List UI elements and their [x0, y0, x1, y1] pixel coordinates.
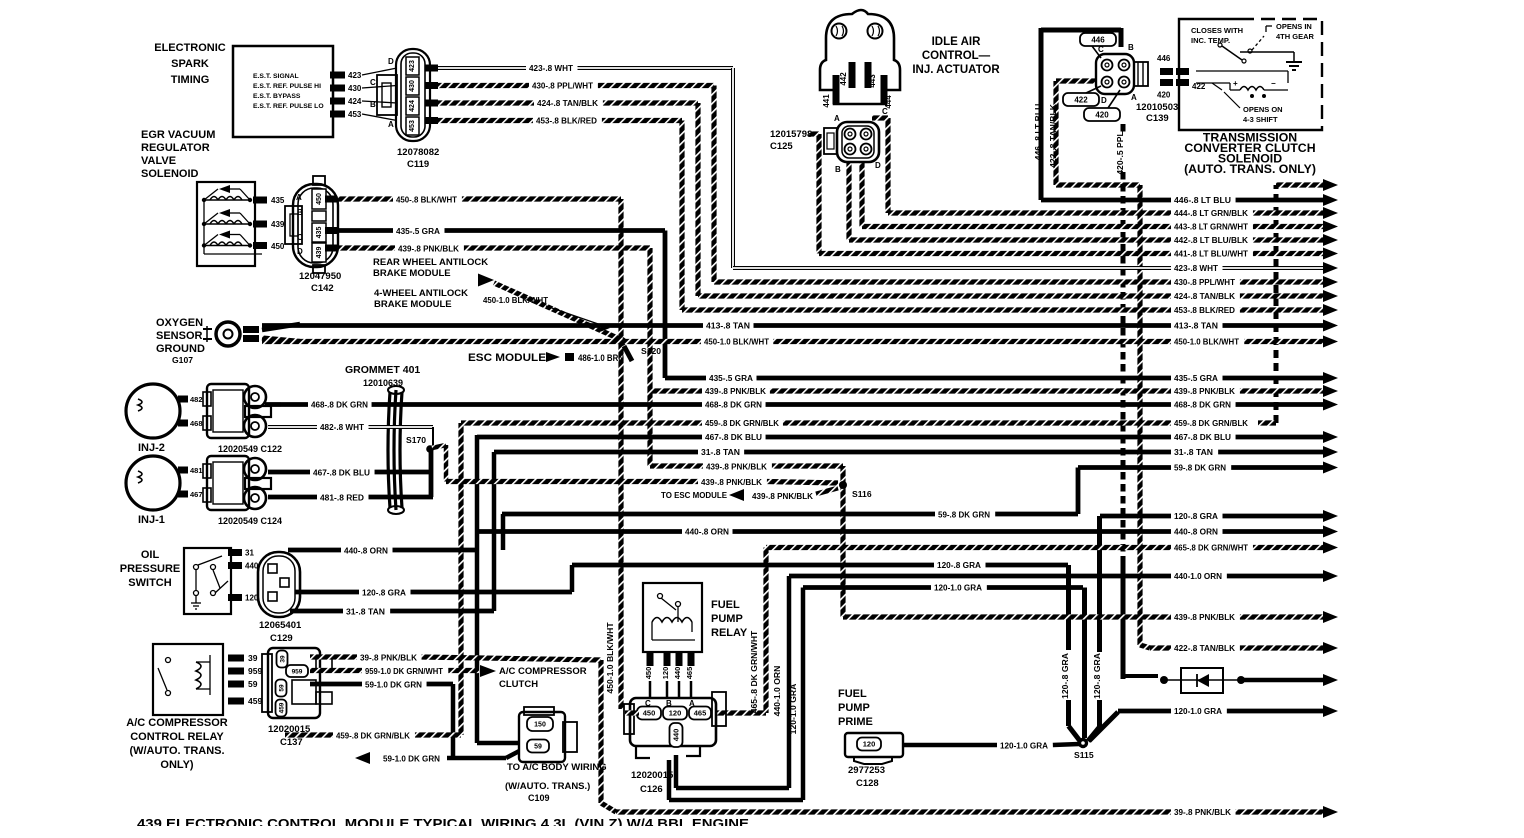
svg-text:435: 435 [316, 227, 323, 239]
svg-text:ESC MODULE: ESC MODULE [468, 352, 546, 364]
svg-text:481-.8 RED: 481-.8 RED [320, 493, 364, 503]
svg-text:FUEL: FUEL [711, 599, 740, 611]
svg-text:A: A [834, 114, 840, 123]
svg-text:OPENS ON: OPENS ON [1243, 105, 1283, 114]
svg-text:TO ESC MODULE: TO ESC MODULE [661, 490, 727, 500]
svg-text:440-.8 ORN: 440-.8 ORN [685, 527, 729, 537]
svg-text:120: 120 [863, 740, 876, 749]
svg-text:120: 120 [661, 667, 670, 680]
svg-text:435-.5 GRA: 435-.5 GRA [1174, 373, 1218, 383]
svg-text:E.S.T. REF. PULSE LO: E.S.T. REF. PULSE LO [253, 103, 324, 110]
svg-text:59: 59 [534, 744, 542, 751]
svg-text:420: 420 [1157, 91, 1171, 100]
svg-text:150: 150 [534, 722, 546, 729]
svg-text:12065401: 12065401 [259, 620, 302, 631]
svg-text:59-.8 DK GRN: 59-.8 DK GRN [1174, 463, 1226, 473]
svg-text:482-.8 WHT: 482-.8 WHT [320, 422, 365, 432]
svg-text:59-.8 DK GRN: 59-.8 DK GRN [938, 510, 990, 520]
svg-text:C: C [297, 233, 303, 242]
svg-text:424-.8 TAN/BLK: 424-.8 TAN/BLK [1174, 291, 1236, 301]
svg-text:459-.8 DK GRN/BLK: 459-.8 DK GRN/BLK [336, 731, 411, 741]
svg-text:440-1.0 ORN: 440-1.0 ORN [772, 666, 782, 717]
svg-text:424: 424 [409, 100, 416, 112]
svg-text:SPARK: SPARK [171, 58, 209, 70]
svg-text:468-.8 DK GRN: 468-.8 DK GRN [1174, 400, 1231, 410]
svg-text:39: 39 [248, 653, 258, 663]
svg-text:OXYGEN: OXYGEN [156, 317, 203, 329]
svg-text:440-1.0 ORN: 440-1.0 ORN [1174, 571, 1222, 581]
svg-text:439: 439 [316, 247, 323, 259]
svg-text:440: 440 [672, 729, 681, 742]
svg-text:120-1.0 GRA: 120-1.0 GRA [934, 583, 982, 593]
svg-text:440: 440 [673, 667, 682, 680]
svg-text:31-.8 TAN: 31-.8 TAN [346, 607, 385, 617]
svg-text:59: 59 [278, 684, 285, 692]
svg-text:4-3 SHIFT: 4-3 SHIFT [1243, 115, 1278, 124]
svg-text:A: A [1131, 93, 1137, 102]
svg-text:453-.8 BLK/RED: 453-.8 BLK/RED [536, 116, 597, 126]
svg-text:31-.8 TAN: 31-.8 TAN [701, 447, 740, 457]
svg-text:B: B [297, 208, 303, 217]
svg-text:420-.5 PPL: 420-.5 PPL [1115, 131, 1125, 174]
svg-text:59-1.0 DK GRN: 59-1.0 DK GRN [365, 680, 422, 690]
svg-text:120-.8 GRA: 120-.8 GRA [362, 588, 406, 598]
svg-text:INJ. ACTUATOR: INJ. ACTUATOR [912, 64, 1000, 76]
svg-text:465: 465 [694, 709, 707, 718]
svg-text:GROUND: GROUND [156, 343, 205, 355]
svg-text:423-.8 WHT: 423-.8 WHT [529, 63, 574, 73]
svg-text:C126: C126 [640, 784, 663, 795]
svg-text:REGULATOR: REGULATOR [141, 142, 210, 154]
svg-text:−: − [1271, 79, 1276, 88]
svg-text:450-.8 BLK/WHT: 450-.8 BLK/WHT [396, 195, 458, 205]
svg-text:482: 482 [190, 395, 203, 404]
svg-text:120: 120 [669, 709, 682, 718]
svg-text:GROMMET 401: GROMMET 401 [345, 364, 420, 376]
svg-text:450: 450 [316, 193, 323, 205]
svg-text:442: 442 [839, 72, 848, 86]
svg-text:D: D [875, 161, 881, 170]
svg-text:E.S.T. REF. PULSE HI: E.S.T. REF. PULSE HI [253, 83, 321, 90]
svg-text:B: B [835, 165, 841, 174]
svg-text:446: 446 [1157, 54, 1171, 63]
svg-text:467-.8 DK BLU: 467-.8 DK BLU [313, 468, 370, 478]
svg-text:4-WHEEL ANTILOCK: 4-WHEEL ANTILOCK [374, 288, 468, 299]
svg-text:TO A/C BODY WIRING: TO A/C BODY WIRING [507, 762, 607, 773]
svg-text:439: 439 [271, 220, 285, 229]
svg-text:C137: C137 [280, 737, 303, 748]
svg-text:442-.8 LT BLU/BLK: 442-.8 LT BLU/BLK [1174, 235, 1249, 245]
svg-text:C: C [1098, 45, 1104, 54]
svg-text:446: 446 [1091, 35, 1105, 44]
svg-text:4TH GEAR: 4TH GEAR [1276, 32, 1315, 41]
svg-text:422-.8 TAN/BLK: 422-.8 TAN/BLK [1048, 103, 1058, 168]
svg-text:2977253: 2977253 [848, 765, 885, 776]
svg-text:INJ-1: INJ-1 [138, 514, 165, 526]
svg-text:441: 441 [822, 94, 831, 108]
svg-text:446-.8 LT BLU: 446-.8 LT BLU [1174, 195, 1231, 205]
svg-text:+: + [1233, 79, 1238, 88]
svg-text:PRESSURE: PRESSURE [120, 563, 181, 575]
svg-text:TIMING: TIMING [171, 74, 210, 86]
svg-text:459: 459 [248, 696, 262, 706]
svg-text:423: 423 [348, 71, 362, 80]
svg-text:OPENS IN: OPENS IN [1276, 22, 1312, 31]
svg-text:423-.8 WHT: 423-.8 WHT [1174, 263, 1219, 273]
svg-text:31-.8 TAN: 31-.8 TAN [1174, 447, 1213, 457]
svg-text:SENSOR: SENSOR [156, 330, 203, 342]
svg-text:D: D [388, 57, 394, 66]
svg-text:PUMP: PUMP [838, 702, 870, 714]
svg-text:D: D [297, 247, 303, 256]
svg-text:459-.8 DK GRN/BLK: 459-.8 DK GRN/BLK [705, 418, 780, 428]
svg-text:ELECTRONIC: ELECTRONIC [154, 42, 226, 54]
svg-text:459: 459 [278, 702, 285, 713]
svg-text:450-1.0 BLK/WHT: 450-1.0 BLK/WHT [483, 295, 549, 305]
svg-text:C128: C128 [856, 778, 879, 789]
svg-text:C129: C129 [270, 633, 293, 644]
svg-text:C119: C119 [407, 159, 429, 170]
svg-text:486-1.0 BRN: 486-1.0 BRN [578, 353, 624, 363]
svg-text:450-1.0 BLK/WHT: 450-1.0 BLK/WHT [1174, 337, 1240, 347]
svg-text:435-.5 GRA: 435-.5 GRA [709, 373, 753, 383]
svg-text:120-.8 GRA: 120-.8 GRA [1060, 653, 1070, 699]
svg-text:B: B [370, 100, 376, 109]
svg-text:959: 959 [248, 666, 262, 676]
svg-text:120-.8 GRA: 120-.8 GRA [1092, 653, 1102, 699]
svg-text:C109: C109 [528, 793, 550, 803]
svg-text:(W/AUTO. TRANS.: (W/AUTO. TRANS. [129, 745, 224, 757]
svg-text:G107: G107 [172, 355, 193, 365]
svg-text:12010503: 12010503 [1136, 102, 1178, 113]
svg-text:450-1.0 BLK/WHT: 450-1.0 BLK/WHT [704, 337, 770, 347]
svg-text:467-.8 DK BLU: 467-.8 DK BLU [1174, 432, 1231, 442]
svg-text:VALVE: VALVE [141, 155, 176, 167]
svg-text:(AUTO. TRANS. ONLY): (AUTO. TRANS. ONLY) [1184, 162, 1316, 176]
svg-text:CONTROL RELAY: CONTROL RELAY [130, 731, 224, 743]
svg-text:439-.8 PNK/BLK: 439-.8 PNK/BLK [1174, 386, 1236, 396]
svg-text:481: 481 [190, 466, 203, 475]
svg-text:959-1.0 DK GRN/WHT: 959-1.0 DK GRN/WHT [365, 666, 444, 676]
svg-text:39-.8 PNK/BLK: 39-.8 PNK/BLK [1174, 807, 1232, 817]
svg-text:422-.8 TAN/BLK: 422-.8 TAN/BLK [1174, 643, 1236, 653]
svg-text:E.S.T. BYPASS: E.S.T. BYPASS [253, 93, 301, 100]
svg-text:430: 430 [348, 84, 362, 93]
svg-text:120-.8 GRA: 120-.8 GRA [937, 560, 981, 570]
svg-text:423: 423 [409, 60, 416, 72]
svg-text:450: 450 [644, 667, 653, 680]
svg-text:435: 435 [271, 196, 285, 205]
svg-text:12015798: 12015798 [770, 129, 812, 140]
svg-text:C: C [370, 78, 376, 87]
svg-text:120-1.0 GRA: 120-1.0 GRA [1174, 706, 1222, 716]
svg-text:31: 31 [245, 549, 254, 558]
svg-text:450: 450 [271, 242, 285, 251]
svg-text:439-.8 PNK/BLK: 439-.8 PNK/BLK [706, 462, 768, 472]
svg-text:413-.8 TAN: 413-.8 TAN [706, 321, 750, 331]
svg-text:959: 959 [292, 668, 303, 675]
svg-text:424-.8 TAN/BLK: 424-.8 TAN/BLK [537, 98, 599, 108]
svg-text:453: 453 [348, 110, 362, 119]
svg-text:420: 420 [1095, 110, 1109, 119]
svg-text:467-.8 DK BLU: 467-.8 DK BLU [705, 432, 762, 442]
svg-text:12078082: 12078082 [397, 147, 439, 158]
svg-text:PRIME: PRIME [838, 716, 873, 728]
svg-text:A/C COMPRESSOR: A/C COMPRESSOR [126, 717, 228, 729]
svg-text:OIL: OIL [141, 549, 160, 561]
svg-text:413-.8 TAN: 413-.8 TAN [1174, 321, 1218, 331]
svg-text:439-.8 PNK/BLK: 439-.8 PNK/BLK [705, 386, 767, 396]
svg-text:A: A [388, 120, 394, 129]
svg-text:EGR VACUUM: EGR VACUUM [141, 129, 215, 141]
svg-text:12020015: 12020015 [631, 770, 674, 781]
svg-text:465-.8 DK GRN/WHT: 465-.8 DK GRN/WHT [1174, 543, 1249, 553]
svg-text:S115: S115 [1074, 750, 1094, 760]
svg-text:453: 453 [409, 120, 416, 132]
svg-text:SOLENOID: SOLENOID [141, 168, 199, 180]
svg-text:441-.8 LT BLU/WHT: 441-.8 LT BLU/WHT [1174, 249, 1249, 259]
svg-text:440-.8 ORN: 440-.8 ORN [1174, 527, 1218, 537]
svg-text:439-.8 PNK/BLK: 439-.8 PNK/BLK [398, 244, 460, 254]
svg-text:CLUTCH: CLUTCH [499, 679, 538, 690]
svg-text:435-.5 GRA: 435-.5 GRA [396, 226, 440, 236]
svg-text:468: 468 [190, 419, 203, 428]
svg-text:465: 465 [685, 667, 694, 680]
svg-text:C142: C142 [311, 283, 334, 294]
svg-text:424: 424 [348, 97, 362, 106]
svg-text:D: D [1101, 96, 1107, 105]
svg-text:INC. TEMP.: INC. TEMP. [1191, 36, 1230, 45]
svg-text:39-.8 PNK/BLK: 39-.8 PNK/BLK [360, 653, 418, 663]
svg-text:465-.8 DK GRN/WHT: 465-.8 DK GRN/WHT [749, 630, 759, 713]
svg-text:443-.8 LT GRN/WHT: 443-.8 LT GRN/WHT [1174, 222, 1249, 232]
svg-text:450: 450 [643, 709, 656, 718]
svg-text:C125: C125 [770, 141, 793, 152]
svg-text:453-.8 BLK/RED: 453-.8 BLK/RED [1174, 305, 1235, 315]
svg-text:ONLY): ONLY) [160, 759, 194, 771]
svg-text:439-.8 PNK/BLK: 439-.8 PNK/BLK [1174, 612, 1236, 622]
svg-text:A/C COMPRESSOR: A/C COMPRESSOR [499, 666, 587, 677]
svg-text:439-.8 PNK/BLK: 439-.8 PNK/BLK [752, 491, 814, 501]
svg-text:S170: S170 [406, 435, 426, 445]
svg-text:C: C [882, 107, 888, 116]
svg-text:S116: S116 [852, 489, 872, 499]
svg-text:E.S.T. SIGNAL: E.S.T. SIGNAL [253, 73, 299, 80]
svg-text:B: B [1128, 43, 1134, 52]
svg-text:REAR WHEEL ANTILOCK: REAR WHEEL ANTILOCK [373, 257, 488, 268]
svg-text:CLOSES WITH: CLOSES WITH [1191, 26, 1243, 35]
svg-text:468-.8 DK GRN: 468-.8 DK GRN [311, 400, 368, 410]
svg-text:450-1.0 BLK/WHT: 450-1.0 BLK/WHT [605, 622, 615, 694]
svg-text:459-.8 DK GRN/BLK: 459-.8 DK GRN/BLK [1174, 418, 1249, 428]
svg-text:430-.8 PPL/WHT: 430-.8 PPL/WHT [532, 81, 594, 91]
svg-text:440-.8 ORN: 440-.8 ORN [344, 546, 388, 556]
svg-text:39: 39 [279, 655, 286, 663]
svg-text:12047950: 12047950 [299, 271, 341, 282]
svg-text:120-1.0 GRA: 120-1.0 GRA [788, 684, 798, 735]
svg-text:SWITCH: SWITCH [128, 577, 171, 589]
svg-text:BRAKE MODULE: BRAKE MODULE [373, 268, 451, 279]
svg-text:IDLE AIR: IDLE AIR [932, 36, 981, 48]
svg-text:430-.8 PPL/WHT: 430-.8 PPL/WHT [1174, 277, 1236, 287]
svg-text:12020549 C124: 12020549 C124 [218, 516, 282, 526]
svg-text:446-.8 LT BLU: 446-.8 LT BLU [1033, 104, 1043, 161]
svg-text:443: 443 [868, 74, 877, 88]
svg-text:S120: S120 [641, 346, 661, 356]
svg-text:PUMP: PUMP [711, 613, 743, 625]
svg-text:59-1.0 DK GRN: 59-1.0 DK GRN [383, 754, 440, 764]
svg-text:467: 467 [190, 490, 203, 499]
svg-text:468-.8 DK GRN: 468-.8 DK GRN [705, 400, 762, 410]
svg-text:A: A [296, 193, 302, 202]
svg-text:INJ-2: INJ-2 [138, 442, 165, 454]
svg-text:440: 440 [245, 562, 259, 571]
svg-text:120-.8 GRA: 120-.8 GRA [1174, 511, 1218, 521]
svg-text:C139: C139 [1146, 113, 1169, 124]
svg-text:422: 422 [1074, 95, 1088, 104]
svg-text:BRAKE MODULE: BRAKE MODULE [374, 299, 452, 310]
svg-text:444-.8 LT GRN/BLK: 444-.8 LT GRN/BLK [1174, 208, 1249, 218]
svg-text:FUEL: FUEL [838, 688, 867, 700]
svg-text:(W/AUTO. TRANS.): (W/AUTO. TRANS.) [505, 781, 590, 792]
svg-text:CONTROL—: CONTROL— [922, 50, 991, 62]
svg-text:RELAY: RELAY [711, 627, 748, 639]
svg-text:59: 59 [248, 679, 258, 689]
svg-text:12020549 C122: 12020549 C122 [218, 444, 282, 454]
svg-text:430: 430 [409, 80, 416, 92]
svg-text:120-1.0 GRA: 120-1.0 GRA [1000, 741, 1048, 751]
svg-text:439-.8 PNK/BLK: 439-.8 PNK/BLK [701, 477, 763, 487]
